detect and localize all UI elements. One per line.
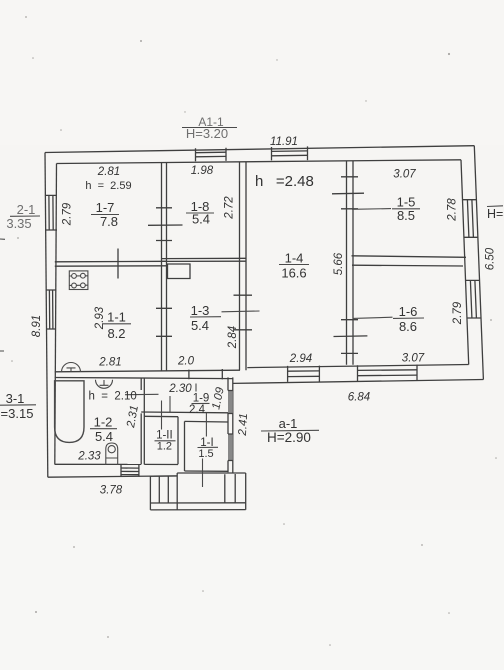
svg-text:2.33: 2.33 (77, 451, 101, 463)
svg-text:h = 2.10: h = 2.10 (89, 391, 137, 403)
svg-text:1.98: 1.98 (191, 165, 214, 177)
svg-text:а-1: а-1 (279, 416, 298, 431)
svg-text:2.81: 2.81 (97, 166, 120, 178)
svg-text:5.4: 5.4 (191, 318, 209, 333)
svg-text:8.2: 8.2 (107, 326, 125, 341)
svg-text:5.66: 5.66 (333, 252, 345, 275)
svg-text:7.8: 7.8 (100, 214, 118, 229)
svg-text:2.41: 2.41 (237, 413, 250, 437)
svg-text:=3.15: =3.15 (1, 406, 34, 421)
svg-text:2.81: 2.81 (98, 357, 121, 369)
svg-text:2-1: 2-1 (17, 202, 36, 217)
svg-text:6.50: 6.50 (485, 247, 497, 270)
svg-text:8.91: 8.91 (31, 315, 43, 337)
svg-text:2.4: 2.4 (189, 404, 206, 416)
svg-text:2.79: 2.79 (62, 202, 74, 226)
svg-text:Н=3.20: Н=3.20 (186, 126, 228, 141)
svg-text:11.91: 11.91 (270, 136, 298, 148)
svg-text:3.35: 3.35 (6, 216, 31, 231)
svg-text:3.07: 3.07 (393, 169, 416, 181)
svg-text:1-4: 1-4 (285, 251, 304, 266)
svg-text:5.4: 5.4 (192, 212, 210, 227)
svg-text:Н=2.90: Н=2.90 (267, 430, 311, 445)
svg-text:h = 2.59: h = 2.59 (85, 180, 131, 192)
svg-text:2.78: 2.78 (447, 198, 459, 222)
svg-text:2.0: 2.0 (177, 356, 195, 368)
svg-text:Н=3.: Н=3. (487, 207, 504, 221)
svg-text:2.93: 2.93 (94, 306, 106, 330)
svg-text:3-1: 3-1 (6, 391, 25, 406)
svg-text:6.84: 6.84 (348, 392, 370, 404)
svg-text:1.2: 1.2 (157, 441, 172, 453)
svg-text:1.5: 1.5 (198, 448, 213, 460)
svg-text:1-3: 1-3 (191, 303, 210, 318)
svg-text:16.6: 16.6 (281, 266, 306, 281)
svg-text:5.4: 5.4 (95, 429, 113, 444)
svg-text:8.5: 8.5 (397, 208, 415, 223)
svg-text:3.07: 3.07 (402, 353, 425, 365)
svg-text:2.84: 2.84 (227, 326, 239, 349)
svg-text:2.94: 2.94 (289, 353, 312, 365)
svg-text:1-9: 1-9 (193, 393, 210, 405)
svg-text:h =2.48: h =2.48 (255, 173, 314, 190)
svg-text:3.78: 3.78 (100, 485, 123, 497)
svg-text:8.6: 8.6 (399, 319, 417, 334)
svg-text:2.79: 2.79 (452, 301, 464, 325)
svg-text:2.30: 2.30 (168, 383, 192, 395)
svg-text:1-1: 1-1 (107, 310, 126, 325)
svg-text:1-2: 1-2 (94, 415, 113, 430)
svg-text:2.72: 2.72 (224, 196, 236, 220)
svg-text:1-7: 1-7 (96, 200, 115, 215)
svg-text:1-6: 1-6 (399, 304, 418, 319)
